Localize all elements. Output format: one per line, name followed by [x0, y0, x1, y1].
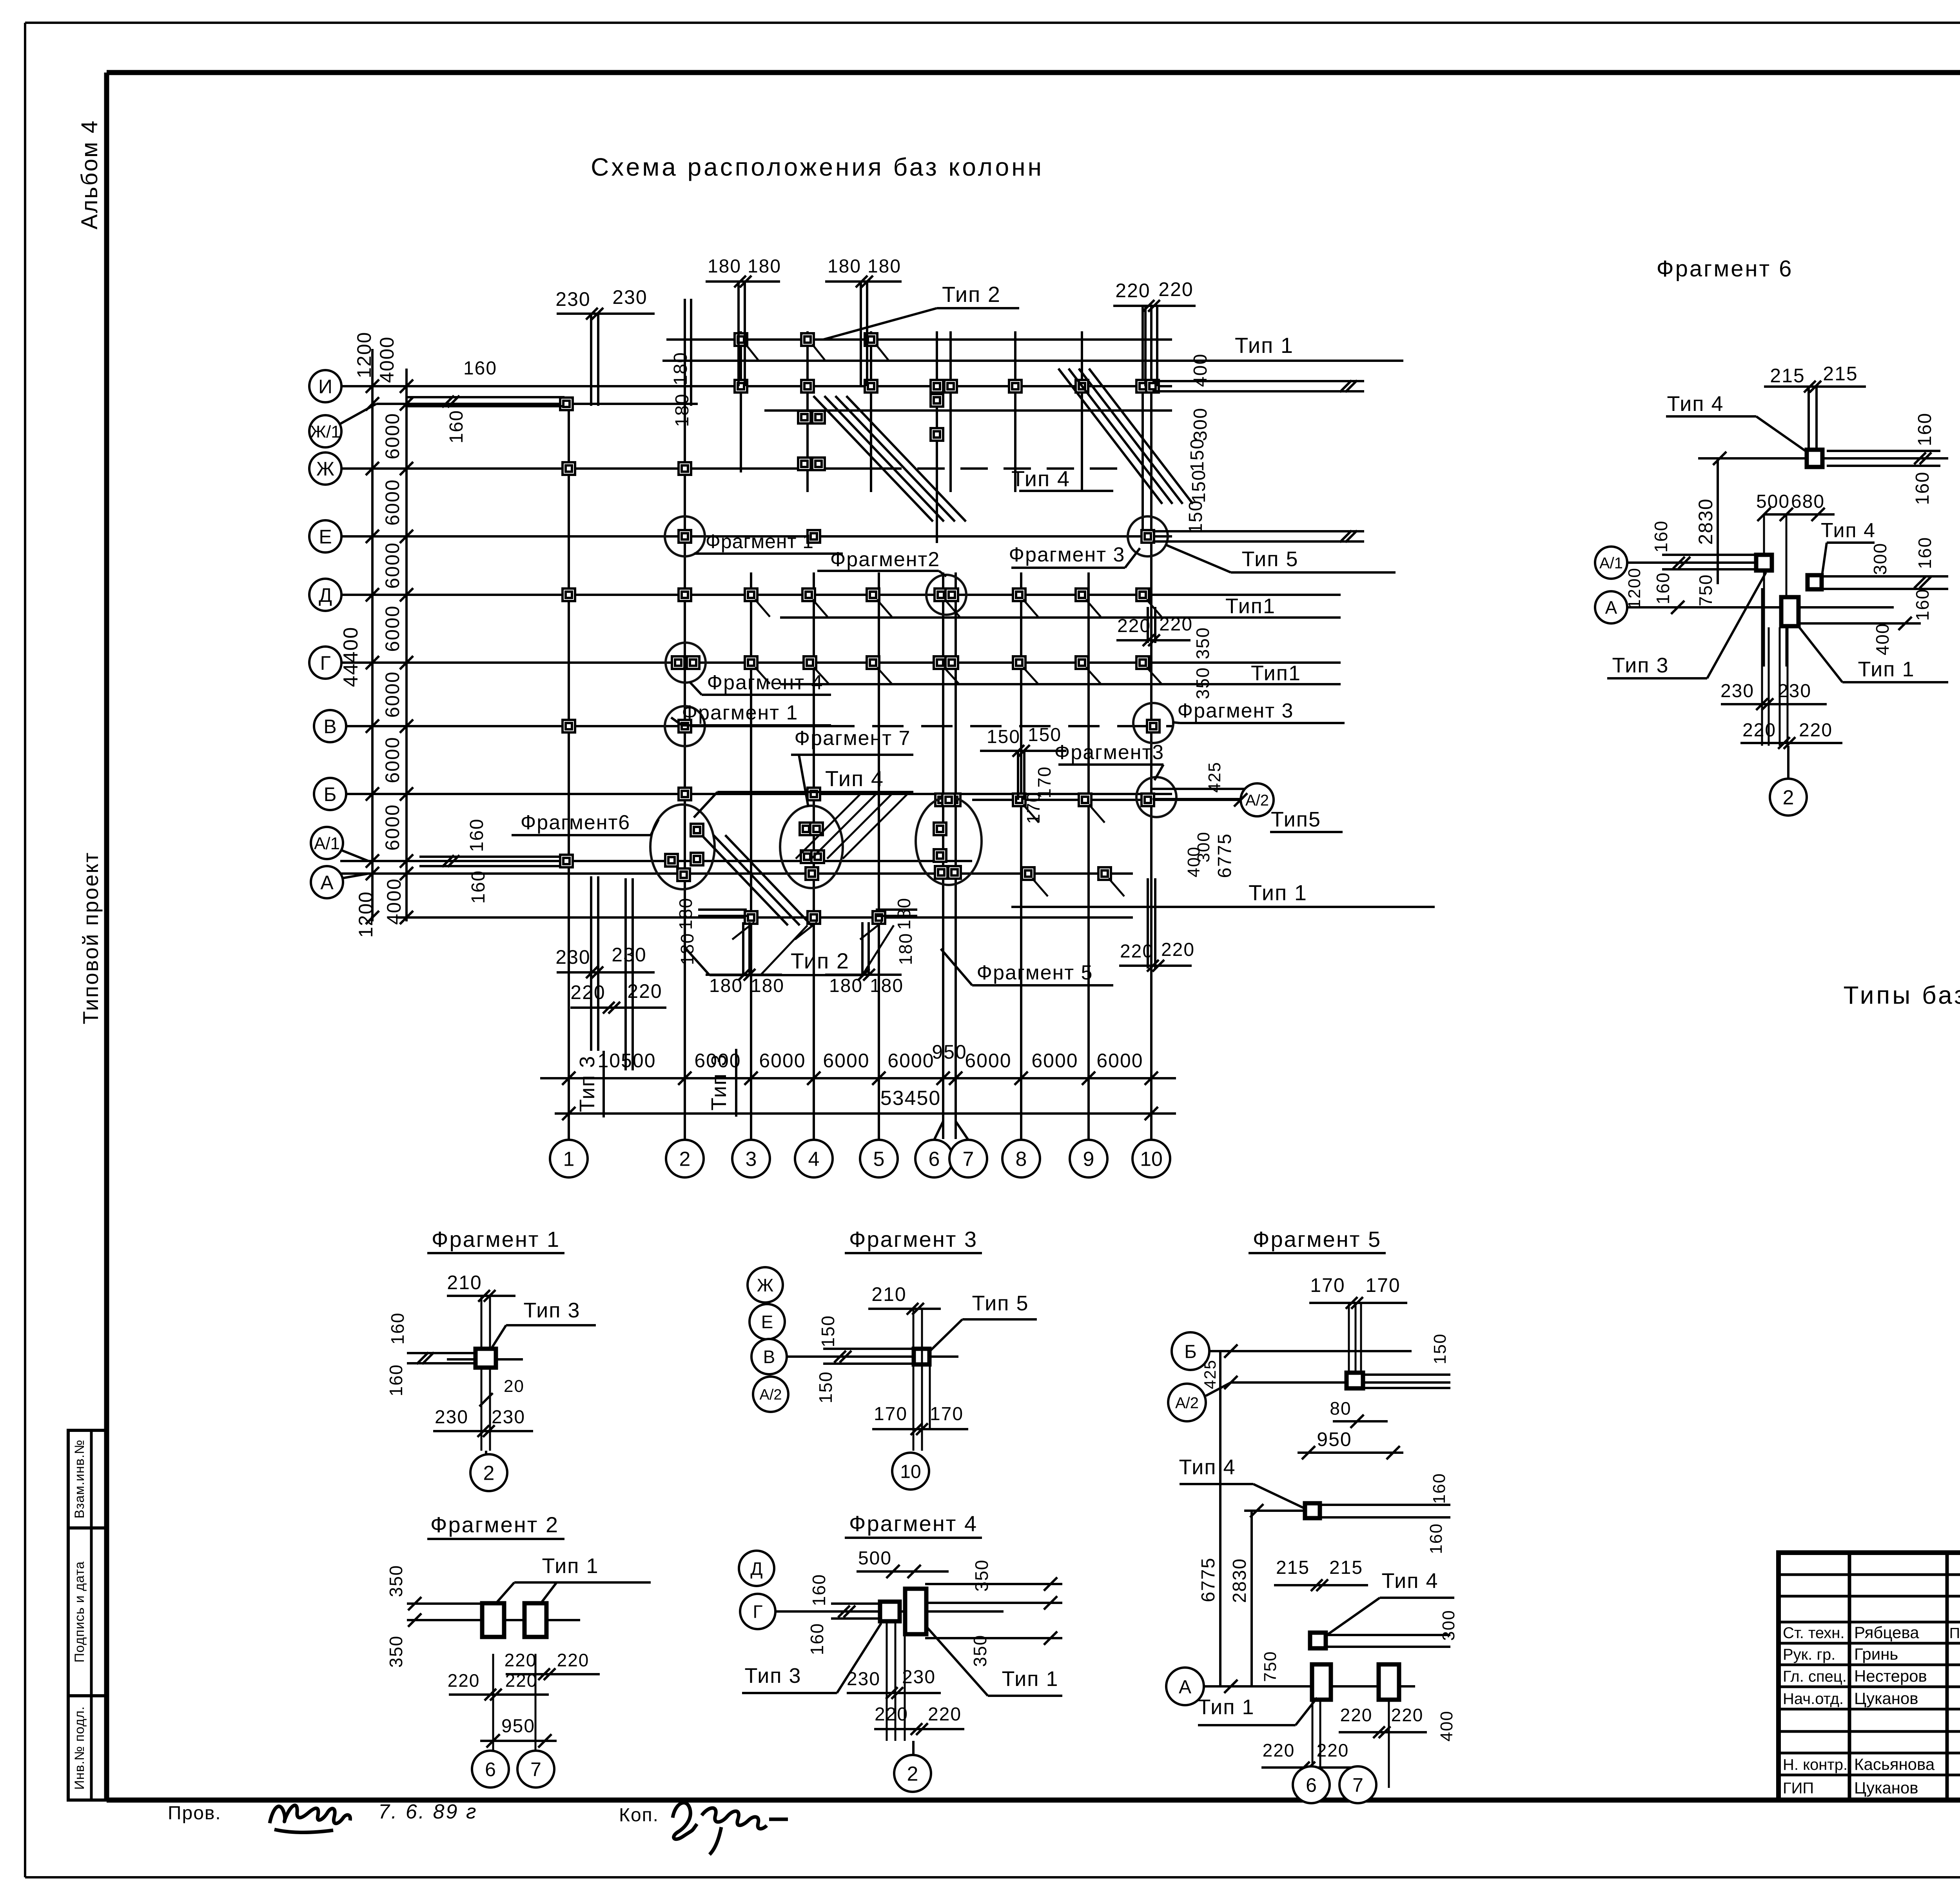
- svg-text:950: 950: [501, 1716, 535, 1737]
- svg-text:180: 180: [675, 897, 696, 930]
- svg-text:Фрагмент 1: Фрагмент 1: [682, 701, 799, 724]
- f5 circles 6 7: [1293, 1766, 1330, 1803]
- left margin stamp boxes: [68, 1430, 107, 1528]
- svg-text:400: 400: [1437, 1710, 1456, 1741]
- f6 big square tip1: [1781, 597, 1798, 626]
- svg-text:220: 220: [557, 1650, 590, 1670]
- svg-text:А/2: А/2: [1175, 1394, 1199, 1412]
- svg-text:А/1: А/1: [1599, 554, 1623, 572]
- svg-text:170: 170: [1310, 1274, 1345, 1296]
- f5 square tip4: [1305, 1503, 1320, 1518]
- leader a: [342, 874, 368, 878]
- svg-text:Ж: Ж: [757, 1275, 773, 1295]
- svg-text:220: 220: [1799, 720, 1833, 741]
- svg-text:10: 10: [1140, 1148, 1163, 1171]
- svg-text:10500: 10500: [597, 1050, 656, 1072]
- top edge row: [666, 338, 1172, 341]
- svg-text:350: 350: [1192, 667, 1213, 699]
- svg-text:160: 160: [1426, 1523, 1446, 1554]
- svg-text:Тип 2: Тип 2: [791, 948, 849, 973]
- svg-text:2: 2: [483, 1462, 495, 1485]
- svg-text:Б: Б: [1184, 1341, 1197, 1362]
- bottom dim 220/220 left: [570, 1006, 666, 1009]
- fragment ovals lower: [650, 805, 715, 889]
- axis A line: [340, 872, 1133, 875]
- svg-text:230: 230: [435, 1407, 468, 1428]
- svg-text:Тип5: Тип5: [1271, 808, 1321, 831]
- svg-text:230: 230: [612, 944, 646, 966]
- svg-text:6000: 6000: [381, 804, 403, 850]
- svg-text:Тип 4: Тип 4: [1011, 466, 1070, 491]
- axis Zh/1 line: [376, 403, 698, 405]
- svg-text:220: 220: [928, 1704, 962, 1725]
- svg-text:Фрагмент 1: Фрагмент 1: [432, 1227, 560, 1252]
- svg-text:И: И: [318, 376, 332, 398]
- svg-text:180: 180: [708, 256, 741, 277]
- horizontal stub lines at row I left: [407, 396, 564, 398]
- axis V line: [340, 725, 823, 727]
- svg-text:220: 220: [505, 1650, 537, 1670]
- f4 circle 2: [912, 1741, 915, 1755]
- fragment reference circles: [665, 516, 705, 556]
- svg-text:Нач.отд.: Нач.отд.: [1783, 1690, 1844, 1708]
- svg-text:220: 220: [505, 1670, 538, 1691]
- f6 square tip4 small: [1808, 575, 1822, 589]
- f4 squares: [880, 1602, 900, 1621]
- svg-text:160: 160: [468, 870, 489, 904]
- svg-text:230: 230: [902, 1667, 936, 1688]
- svg-text:950: 950: [932, 1041, 967, 1063]
- svg-text:7: 7: [1352, 1774, 1363, 1796]
- svg-text:6000: 6000: [823, 1050, 869, 1072]
- svg-text:Коп.: Коп.: [619, 1805, 659, 1826]
- svg-text:5: 5: [873, 1148, 885, 1171]
- svg-text:Ж: Ж: [316, 458, 334, 480]
- svg-text:6775: 6775: [1214, 833, 1235, 878]
- bottom dims 180/180 pairs: [706, 974, 782, 976]
- svg-text:230: 230: [612, 286, 647, 308]
- svg-text:Альбом 4: Альбом 4: [77, 120, 102, 229]
- axis Zh line: [340, 467, 874, 470]
- svg-text:215: 215: [1823, 363, 1858, 385]
- svg-text:400: 400: [1184, 846, 1203, 877]
- svg-text:7. 6. 89 г: 7. 6. 89 г: [378, 1800, 478, 1823]
- svg-text:6000: 6000: [381, 671, 403, 718]
- lower chord line: [1011, 906, 1435, 908]
- svg-text:4: 4: [808, 1148, 820, 1171]
- svg-text:10: 10: [900, 1461, 921, 1482]
- svg-text:Тип 1: Тип 1: [1235, 333, 1294, 358]
- vertical stubs below A row near col2: [624, 878, 627, 1070]
- svg-text:300: 300: [1190, 407, 1211, 441]
- bottom edge row: [396, 916, 1133, 919]
- svg-text:7: 7: [963, 1148, 974, 1171]
- svg-text:180: 180: [867, 256, 901, 277]
- svg-text:Подпись и дата: Подпись и дата: [72, 1561, 87, 1663]
- svg-text:160: 160: [807, 1623, 827, 1655]
- svg-text:150: 150: [818, 1315, 838, 1348]
- f5 square B/A2: [1347, 1373, 1363, 1388]
- svg-text:500: 500: [858, 1548, 892, 1569]
- f6 2830 vertical dim: [1717, 458, 1719, 584]
- svg-text:150: 150: [1430, 1333, 1450, 1364]
- svg-text:6: 6: [485, 1758, 496, 1780]
- drawing frame: [107, 70, 1960, 75]
- svg-text:425: 425: [1201, 1359, 1219, 1389]
- svg-text:220: 220: [875, 1704, 908, 1725]
- svg-text:Тип 4: Тип 4: [1381, 1569, 1438, 1593]
- upper chord line (Tip1 shelf): [662, 360, 1403, 362]
- svg-text:6000: 6000: [965, 1050, 1011, 1072]
- svg-text:Тип 2: Тип 2: [942, 282, 1001, 307]
- svg-text:Н. контр.: Н. контр.: [1783, 1756, 1847, 1773]
- f6 square top: [1807, 450, 1822, 467]
- diagonal brace lines from oval area: [702, 835, 788, 925]
- svg-text:6: 6: [929, 1148, 940, 1171]
- f4 axis circles: [739, 1551, 774, 1586]
- svg-text:220: 220: [1159, 614, 1193, 635]
- svg-text:Рябцева: Рябцева: [1854, 1623, 1919, 1642]
- leader ticks from squares: [746, 344, 758, 360]
- svg-text:230: 230: [847, 1669, 880, 1689]
- svg-text:В: В: [323, 716, 336, 738]
- svg-text:220: 220: [1263, 1740, 1295, 1760]
- svg-text:6000: 6000: [381, 605, 403, 652]
- svg-text:80: 80: [1330, 1398, 1351, 1419]
- svg-text:6775: 6775: [1198, 1557, 1219, 1602]
- svg-text:Инв.№ подл.: Инв.№ подл.: [72, 1706, 87, 1789]
- svg-text:220: 220: [1340, 1705, 1373, 1725]
- svg-text:6000: 6000: [381, 542, 403, 589]
- svg-text:160: 160: [466, 818, 487, 852]
- mid dims 150/150 (row B area): [980, 750, 1066, 752]
- svg-text:160: 160: [463, 358, 497, 379]
- right side small dims near col10 top: [1152, 380, 1364, 382]
- svg-text:6000: 6000: [381, 736, 403, 783]
- svg-text:150: 150: [815, 1371, 836, 1404]
- svg-text:230: 230: [1778, 681, 1811, 701]
- svg-text:170: 170: [874, 1404, 907, 1424]
- column base squares: [735, 333, 747, 346]
- svg-text:4000: 4000: [376, 336, 398, 383]
- f6 axis A: [1595, 591, 1627, 623]
- left dim chain: [371, 349, 374, 921]
- row axis circles left: [309, 370, 341, 402]
- svg-text:Фрагмент 3: Фрагмент 3: [849, 1227, 978, 1252]
- svg-text:6000: 6000: [381, 412, 403, 459]
- f5 axis A: [1166, 1668, 1204, 1705]
- svg-text:180: 180: [751, 976, 784, 996]
- svg-text:350: 350: [1192, 627, 1213, 659]
- bottom dimension line 1: [540, 1077, 1176, 1079]
- svg-text:220: 220: [1158, 278, 1193, 300]
- I row shelf: [764, 409, 1172, 412]
- dim 220/220 row B right: [1116, 639, 1191, 641]
- svg-text:6: 6: [1306, 1774, 1317, 1796]
- svg-text:Типовой проект: Типовой проект: [78, 852, 103, 1025]
- svg-text:Г: Г: [753, 1602, 763, 1622]
- f6 row line top: [1698, 457, 1948, 460]
- f4 G axis line: [775, 1610, 1004, 1613]
- bottom dimension line 2 (53450): [555, 1112, 1176, 1115]
- svg-text:Тип 4: Тип 4: [1821, 519, 1876, 542]
- svg-text:180: 180: [670, 352, 691, 385]
- column axis circles bottom: [550, 1140, 588, 1177]
- f1 square: [475, 1349, 496, 1368]
- svg-text:400: 400: [1190, 353, 1211, 387]
- svg-text:160: 160: [1430, 1473, 1449, 1504]
- axis G line: [340, 661, 1341, 664]
- diagonal brace lines upper middle: [813, 396, 933, 521]
- svg-text:160: 160: [1653, 572, 1673, 605]
- svg-text:20: 20: [504, 1377, 524, 1396]
- f6 axis A/1: [1595, 547, 1627, 579]
- svg-text:220: 220: [1391, 1705, 1424, 1725]
- svg-text:350: 350: [970, 1635, 990, 1667]
- svg-text:180: 180: [895, 933, 916, 965]
- svg-text:300: 300: [1870, 543, 1890, 575]
- svg-text:Д: Д: [750, 1559, 762, 1579]
- svg-text:150: 150: [1185, 500, 1206, 534]
- svg-text:Фрагмент 4: Фрагмент 4: [707, 671, 824, 694]
- svg-text:160: 160: [1912, 589, 1933, 621]
- f6 square A/1: [1756, 555, 1772, 570]
- svg-text:Тип 1: Тип 1: [542, 1554, 599, 1578]
- svg-text:4000: 4000: [383, 878, 405, 925]
- svg-text:400: 400: [1872, 623, 1893, 656]
- svg-text:Пров.: Пров.: [168, 1803, 221, 1824]
- svg-text:180: 180: [829, 976, 863, 996]
- svg-text:Тип1: Тип1: [1251, 661, 1301, 685]
- squares inside ovals: [691, 824, 703, 836]
- svg-text:220: 220: [448, 1670, 480, 1691]
- f5 bold rects at A: [1312, 1664, 1331, 1700]
- f5 axis B: [1172, 1332, 1209, 1370]
- svg-text:А: А: [320, 872, 334, 894]
- G row shelf: [780, 683, 1341, 685]
- svg-text:160: 160: [1915, 537, 1935, 569]
- svg-text:Типы баз колонн приведены: Типы баз колонн приведены на листе 14.: [1844, 981, 1960, 1009]
- svg-text:220: 220: [1161, 939, 1195, 960]
- svg-text:1200: 1200: [1625, 567, 1644, 609]
- f1 row line: [447, 1358, 523, 1361]
- svg-text:6000: 6000: [1031, 1050, 1078, 1072]
- f5 square tip4 2: [1310, 1633, 1326, 1648]
- svg-text:1: 1: [563, 1148, 575, 1171]
- svg-text:230: 230: [555, 946, 590, 968]
- svg-text:Цуканов: Цуканов: [1854, 1689, 1918, 1708]
- svg-text:220: 220: [570, 981, 605, 1003]
- svg-text:Тип 4: Тип 4: [1667, 392, 1724, 416]
- svg-text:210: 210: [447, 1272, 482, 1293]
- svg-text:2830: 2830: [1695, 498, 1717, 545]
- svg-text:А: А: [1605, 598, 1617, 618]
- svg-text:170: 170: [930, 1404, 964, 1424]
- svg-text:950: 950: [1317, 1428, 1352, 1450]
- svg-text:180: 180: [748, 256, 781, 277]
- svg-text:500: 500: [1756, 491, 1790, 512]
- horizontal stub lines at row A/1 left: [419, 856, 566, 858]
- svg-text:Цуканов: Цуканов: [1854, 1778, 1918, 1797]
- svg-text:Нестеров: Нестеров: [1854, 1667, 1927, 1685]
- svg-text:6000: 6000: [887, 1050, 934, 1072]
- svg-text:210: 210: [871, 1283, 906, 1305]
- svg-text:Гринь: Гринь: [1854, 1645, 1898, 1663]
- top dim 230/230: [557, 312, 655, 315]
- svg-text:180: 180: [828, 256, 861, 277]
- svg-text:750: 750: [1695, 574, 1716, 607]
- svg-text:170: 170: [1365, 1274, 1400, 1296]
- svg-text:220: 220: [1117, 616, 1151, 636]
- A/2 circle right: [1241, 783, 1274, 816]
- svg-text:1200: 1200: [353, 331, 375, 378]
- svg-text:6000: 6000: [759, 1050, 806, 1072]
- svg-text:Фрагмент2: Фрагмент2: [830, 548, 940, 571]
- axis I line: [340, 385, 1172, 387]
- svg-text:160: 160: [1651, 520, 1671, 553]
- svg-text:150: 150: [1189, 469, 1209, 503]
- svg-text:160: 160: [1912, 471, 1933, 505]
- svg-text:Тип 5: Тип 5: [972, 1292, 1029, 1315]
- axis A/2 line: [972, 799, 1241, 801]
- svg-text:2830: 2830: [1229, 1558, 1250, 1603]
- svg-text:Тип 1: Тип 1: [1002, 1667, 1058, 1691]
- svg-text:А/2: А/2: [1245, 792, 1269, 809]
- f3 square: [914, 1349, 929, 1364]
- svg-text:300: 300: [1439, 1610, 1458, 1640]
- axis D line: [340, 594, 1341, 596]
- svg-text:Фрагмент 1: Фрагмент 1: [706, 530, 814, 552]
- svg-text:Фрагмент 2: Фрагмент 2: [430, 1512, 559, 1537]
- svg-text:А: А: [1179, 1677, 1191, 1697]
- svg-text:8: 8: [1016, 1148, 1027, 1171]
- svg-text:2: 2: [907, 1763, 918, 1786]
- axis E line: [340, 535, 1172, 538]
- svg-text:160: 160: [809, 1574, 829, 1606]
- f5 axis A/2: [1168, 1384, 1206, 1421]
- svg-text:220: 220: [1115, 280, 1150, 302]
- svg-text:Фрагмент 4: Фрагмент 4: [849, 1511, 978, 1536]
- svg-text:Фрагмент 5: Фрагмент 5: [977, 961, 1093, 984]
- svg-text:3: 3: [746, 1148, 757, 1171]
- svg-text:215: 215: [1329, 1557, 1363, 1578]
- svg-text:Тип 1: Тип 1: [1858, 658, 1915, 681]
- svg-text:Д: Д: [319, 584, 332, 606]
- leader zh/1: [339, 404, 376, 424]
- upper grid verticals: [740, 331, 742, 472]
- svg-text:Фрагмент 3: Фрагмент 3: [1178, 699, 1294, 722]
- f6 axis circle 2: [1787, 746, 1789, 779]
- svg-text:180: 180: [709, 976, 743, 996]
- f2 bold rects: [482, 1603, 504, 1637]
- svg-text:Тип 5: Тип 5: [1241, 547, 1298, 571]
- svg-text:220: 220: [1317, 1740, 1349, 1760]
- svg-text:Е: Е: [761, 1312, 773, 1332]
- svg-text:220: 220: [627, 980, 662, 1002]
- D row shelf: [780, 616, 1341, 619]
- sheet outer thin border: [25, 22, 1960, 24]
- svg-text:6000: 6000: [694, 1050, 741, 1072]
- axis A/1 line: [340, 860, 972, 862]
- f3 V axis line: [787, 1355, 958, 1358]
- svg-text:Фрагмент6: Фрагмент6: [521, 811, 630, 834]
- lower grid verticals (columns 1-10): [568, 397, 570, 1139]
- svg-text:180: 180: [870, 976, 904, 996]
- svg-text:Фрагмент 5: Фрагмент 5: [1253, 1227, 1381, 1252]
- svg-text:160: 160: [387, 1312, 408, 1345]
- top dims 180/180 pair 1: [706, 280, 780, 283]
- svg-text:Тип 4: Тип 4: [825, 766, 884, 791]
- svg-text:230: 230: [555, 288, 590, 310]
- svg-text:170: 170: [1023, 792, 1044, 824]
- svg-text:2: 2: [1783, 787, 1794, 809]
- svg-text:150: 150: [987, 727, 1020, 747]
- svg-text:А/1: А/1: [314, 834, 340, 853]
- svg-text:В: В: [763, 1347, 775, 1367]
- top dim 220/220 col10: [1113, 305, 1196, 307]
- svg-text:Тип 3: Тип 3: [744, 1664, 801, 1688]
- svg-text:ГИП: ГИП: [1783, 1780, 1814, 1797]
- svg-text:215: 215: [1276, 1557, 1310, 1578]
- svg-text:Ст. техн.: Ст. техн.: [1783, 1624, 1844, 1642]
- svg-text:Г: Г: [320, 652, 330, 674]
- svg-text:6000: 6000: [1096, 1050, 1143, 1072]
- f1 circle 2: [485, 1451, 487, 1455]
- svg-text:Тип 4: Тип 4: [1179, 1455, 1236, 1479]
- svg-text:750: 750: [1261, 1651, 1280, 1682]
- svg-text:160: 160: [386, 1364, 406, 1397]
- svg-text:220: 220: [1742, 720, 1776, 741]
- svg-text:Схема расположения баз коло: Схема расположения баз колонн: [591, 153, 1044, 181]
- svg-text:230: 230: [1720, 681, 1754, 701]
- leader a/1: [341, 850, 368, 861]
- f3 circle 10: [892, 1453, 929, 1490]
- svg-text:150: 150: [1187, 438, 1208, 472]
- svg-text:Тип 3: Тип 3: [575, 1055, 599, 1112]
- svg-text:Подпись: Подпись: [1949, 1625, 1960, 1642]
- svg-text:Фрагмент 3: Фрагмент 3: [1009, 543, 1125, 566]
- svg-text:180: 180: [894, 897, 914, 930]
- svg-text:Фрагмент3: Фрагмент3: [1054, 741, 1164, 764]
- f2 circles 6 7: [472, 1751, 509, 1788]
- svg-text:7: 7: [530, 1758, 541, 1780]
- svg-text:160: 160: [1915, 412, 1935, 446]
- svg-text:230: 230: [492, 1407, 525, 1428]
- svg-text:Тип 1: Тип 1: [1249, 880, 1307, 905]
- svg-text:350: 350: [971, 1559, 992, 1592]
- f5 6775/2830 dims: [1219, 1351, 1221, 1686]
- svg-text:2: 2: [679, 1148, 691, 1171]
- svg-text:Фрагмент 6: Фрагмент 6: [1657, 256, 1793, 282]
- svg-text:215: 215: [1770, 365, 1805, 387]
- svg-text:А/2: А/2: [759, 1387, 782, 1403]
- svg-text:Касьянова: Касьянова: [1854, 1755, 1935, 1773]
- svg-text:Б: Б: [324, 783, 337, 805]
- svg-text:9: 9: [1083, 1148, 1094, 1171]
- f3 axis circles: [748, 1267, 783, 1303]
- svg-text:Тип 3: Тип 3: [523, 1299, 580, 1322]
- svg-text:Взам.инв.№: Взам.инв.№: [72, 1439, 87, 1519]
- svg-text:Рук. гр.: Рук. гр.: [1783, 1646, 1835, 1663]
- svg-text:44400: 44400: [339, 627, 362, 687]
- titleblock: main stamp: [1779, 1553, 1960, 1800]
- svg-text:1200: 1200: [355, 891, 377, 937]
- svg-text:Тип1: Тип1: [1225, 594, 1276, 618]
- svg-text:Тип 3: Тип 3: [1612, 654, 1669, 677]
- svg-text:350: 350: [386, 1635, 406, 1668]
- svg-text:Гл. спец.: Гл. спец.: [1783, 1668, 1847, 1685]
- top dims 180/180 pair 2: [825, 280, 902, 283]
